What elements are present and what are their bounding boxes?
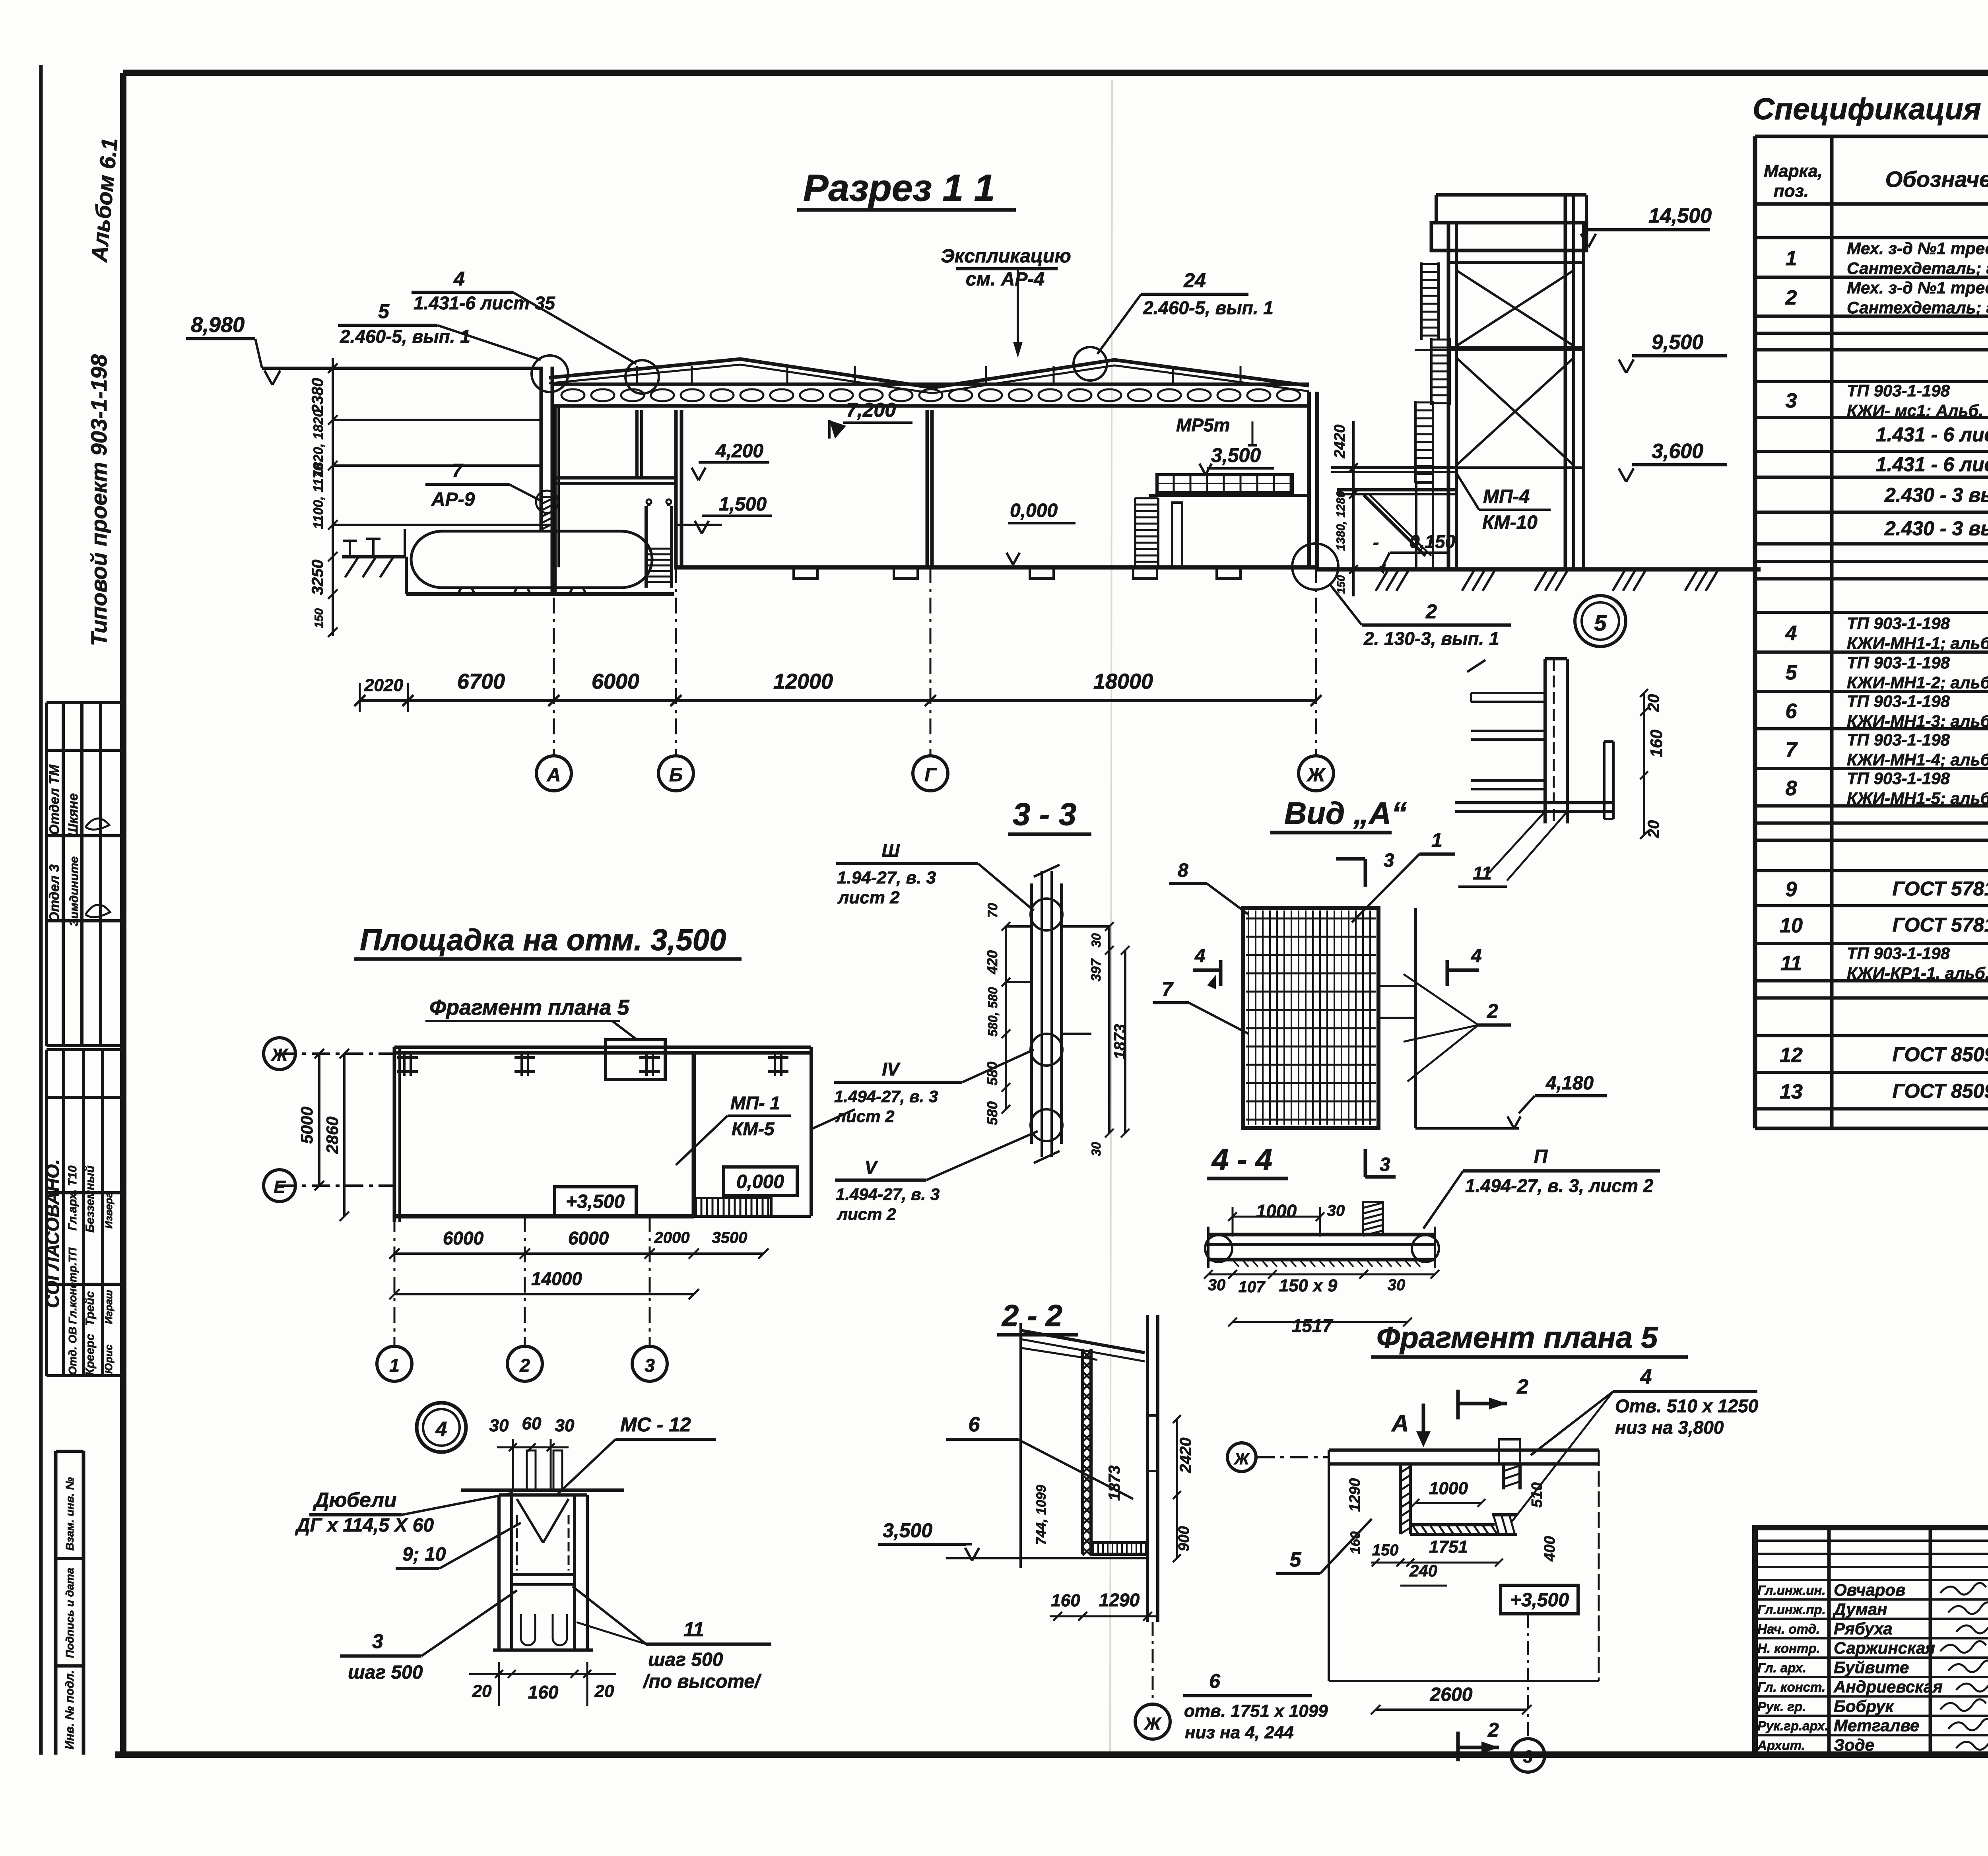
svg-text:2.430 - 3 вып. 3: 2.430 - 3 вып. 3	[1884, 517, 1988, 540]
svg-text:1: 1	[1786, 247, 1797, 270]
svg-text:30: 30	[1089, 1142, 1103, 1156]
svg-text:СОГЛАСОВАНО.: СОГЛАСОВАНО.	[42, 1159, 63, 1308]
svg-text:КЖИ-МН1-1; альб. 6.4: КЖИ-МН1-1; альб. 6.4	[1847, 634, 1988, 652]
svg-text:7,200: 7,200	[846, 399, 896, 421]
svg-text:Бобрук: Бобрук	[1834, 1697, 1894, 1715]
svg-text:Архит.: Архит.	[1757, 1738, 1805, 1753]
svg-text:6: 6	[969, 1413, 980, 1436]
svg-text:160: 160	[1647, 730, 1666, 757]
svg-text:ТП 903-1-198: ТП 903-1-198	[1847, 944, 1950, 963]
svg-text:3250: 3250	[309, 560, 326, 595]
svg-text:Ж: Ж	[1144, 1714, 1162, 1734]
svg-text:150 х 9: 150 х 9	[1279, 1276, 1338, 1295]
svg-text:Вид „А“: Вид „А“	[1284, 796, 1407, 831]
svg-text:12: 12	[1780, 1044, 1803, 1067]
svg-text:ГОСТ 8509-72: ГОСТ 8509-72	[1892, 1080, 1988, 1102]
svg-text:Ш: Ш	[881, 840, 900, 861]
svg-text:/по высоте/: /по высоте/	[643, 1671, 762, 1692]
svg-text:3: 3	[372, 1630, 383, 1652]
svg-text:580: 580	[984, 1101, 1000, 1125]
svg-text:3: 3	[1523, 1747, 1533, 1767]
svg-text:Взам. инв. №: Взам. инв. №	[64, 1477, 76, 1551]
svg-text:поз.: поз.	[1774, 181, 1809, 201]
svg-text:5: 5	[1594, 610, 1607, 635]
svg-text:150: 150	[1372, 1541, 1399, 1559]
svg-text:ГОСТ 5781-81: ГОСТ 5781-81	[1892, 878, 1988, 900]
svg-text:400: 400	[1541, 1536, 1558, 1561]
svg-text:2020: 2020	[364, 676, 403, 695]
svg-text:Фрагмент плана 5: Фрагмент плана 5	[1376, 1321, 1658, 1355]
svg-text:КЖИ-КР1-1, альб. 6.4: КЖИ-КР1-1, альб. 6.4	[1847, 964, 1988, 982]
svg-text:Обозначение: Обозначение	[1885, 167, 1988, 192]
svg-text:Ж: Ж	[271, 1045, 289, 1065]
svg-text:1751: 1751	[1429, 1537, 1468, 1557]
svg-text:30: 30	[1327, 1202, 1345, 1219]
svg-text:150: 150	[313, 608, 326, 628]
svg-text:Зоде: Зоде	[1834, 1736, 1874, 1754]
svg-text:30: 30	[489, 1416, 509, 1435]
svg-text:30: 30	[1208, 1276, 1226, 1294]
svg-text:МС - 12: МС - 12	[620, 1413, 691, 1436]
svg-text:Метгалве: Метгалве	[1834, 1716, 1919, 1735]
svg-text:12000: 12000	[773, 670, 833, 693]
svg-text:Нач. отд.: Нач. отд.	[1757, 1621, 1820, 1636]
svg-text:Думан: Думан	[1833, 1600, 1887, 1619]
svg-text:2420: 2420	[1177, 1438, 1194, 1474]
svg-text:3: 3	[1384, 850, 1394, 871]
svg-text:160: 160	[1051, 1591, 1080, 1610]
svg-text:2860: 2860	[323, 1116, 342, 1154]
svg-text:Экспликацию: Экспликацию	[941, 246, 1071, 267]
svg-text:1.494-27, в. 3, лист 2: 1.494-27, в. 3, лист 2	[1465, 1175, 1654, 1196]
svg-text:5: 5	[1786, 661, 1798, 684]
svg-text:Креерс: Креерс	[83, 1334, 97, 1376]
svg-text:А: А	[1391, 1410, 1409, 1437]
svg-text:Отдел 3: Отдел 3	[47, 864, 62, 922]
svg-text:Гл.арх. Т10: Гл.арх. Т10	[66, 1165, 79, 1231]
svg-text:ТП 903-1-198: ТП 903-1-198	[1847, 692, 1950, 711]
svg-text:Дюбели: Дюбели	[313, 1489, 397, 1512]
svg-text:Гл. конст.: Гл. конст.	[1757, 1680, 1825, 1695]
svg-text:Г: Г	[924, 765, 937, 786]
svg-text:Е: Е	[274, 1177, 286, 1197]
svg-text:шаг 500: шаг 500	[348, 1662, 423, 1683]
svg-text:Юрис: Юрис	[103, 1344, 115, 1374]
svg-text:КЖИ-МН1-2; альб. 6.4: КЖИ-МН1-2; альб. 6.4	[1847, 673, 1988, 692]
svg-text:2: 2	[1516, 1375, 1528, 1398]
svg-text:Площадка на отм. 3,500: Площадка на отм. 3,500	[360, 923, 726, 957]
svg-text:6: 6	[1786, 700, 1798, 723]
svg-text:Ж: Ж	[1306, 765, 1326, 786]
svg-text:8: 8	[1178, 860, 1188, 881]
svg-text:20: 20	[472, 1681, 492, 1701]
svg-text:11: 11	[1780, 952, 1802, 975]
svg-text:ТП 903-1-198: ТП 903-1-198	[1847, 769, 1950, 788]
svg-text:Гл.инж.пр.: Гл.инж.пр.	[1757, 1602, 1826, 1617]
svg-text:Саржинская: Саржинская	[1834, 1639, 1935, 1657]
svg-text:7: 7	[452, 460, 464, 481]
svg-text:Шкяне: Шкяне	[66, 793, 81, 837]
svg-text:7: 7	[1162, 978, 1174, 1000]
svg-text:Рябуха: Рябуха	[1834, 1619, 1893, 1638]
svg-text:1873: 1873	[1106, 1466, 1123, 1501]
svg-text:1000: 1000	[1256, 1201, 1297, 1221]
svg-text:низ на 4, 244: низ на 4, 244	[1185, 1723, 1294, 1742]
svg-text:МП-4: МП-4	[1483, 486, 1530, 507]
svg-text:2420: 2420	[1332, 425, 1348, 459]
svg-text:2: 2	[1487, 1719, 1499, 1741]
svg-text:10: 10	[1780, 914, 1803, 937]
svg-text:160: 160	[528, 1682, 559, 1703]
svg-text:1: 1	[389, 1355, 400, 1376]
svg-text:Буйвите: Буйвите	[1834, 1658, 1909, 1677]
svg-text:Сантехдеталь; г.Горький: Сантехдеталь; г.Горький	[1847, 259, 1988, 278]
svg-text:1290: 1290	[1099, 1590, 1140, 1610]
svg-text:20: 20	[1645, 694, 1662, 713]
svg-text:ГОСТ 5781-81: ГОСТ 5781-81	[1892, 914, 1988, 936]
svg-text:1.431-6 лист 35: 1.431-6 лист 35	[414, 293, 555, 313]
svg-text:КЖИ-МН1-5; альб. 6.4: КЖИ-МН1-5; альб. 6.4	[1847, 789, 1988, 808]
svg-text:Трейс: Трейс	[83, 1291, 97, 1326]
svg-text:6000: 6000	[592, 670, 639, 693]
svg-text:20: 20	[1645, 820, 1662, 839]
svg-text:580, 580: 580, 580	[986, 987, 1000, 1037]
svg-text:0,000: 0,000	[736, 1171, 784, 1192]
svg-text:1,500: 1,500	[719, 494, 767, 515]
svg-text:Подпись и дата: Подпись и дата	[64, 1568, 76, 1658]
svg-text:1380, 1280: 1380, 1280	[1334, 491, 1347, 551]
svg-text:4: 4	[1640, 1365, 1652, 1388]
svg-text:3500: 3500	[712, 1229, 747, 1246]
svg-text:3,500: 3,500	[1211, 444, 1261, 466]
svg-text:14000: 14000	[531, 1268, 582, 1289]
svg-text:+3,500: +3,500	[1510, 1590, 1569, 1611]
svg-text:9; 10: 9; 10	[402, 1544, 446, 1565]
svg-text:Гл.инж.ин.: Гл.инж.ин.	[1757, 1583, 1826, 1598]
svg-text:9,500: 9,500	[1652, 331, 1703, 354]
svg-text:Гл. арх.: Гл. арх.	[1757, 1660, 1806, 1675]
svg-text:1290: 1290	[1347, 1478, 1363, 1512]
svg-text:Разрез 1 1: Разрез 1 1	[803, 167, 995, 209]
svg-text:Н. контр.: Н. контр.	[1757, 1641, 1820, 1656]
svg-text:Играш: Играш	[103, 1290, 115, 1324]
svg-text:2600: 2600	[1430, 1684, 1473, 1705]
svg-text:КМ-10: КМ-10	[1482, 512, 1538, 533]
svg-text:397: 397	[1089, 958, 1104, 982]
svg-text:420: 420	[984, 950, 1000, 975]
svg-text:лист 2: лист 2	[837, 888, 900, 907]
svg-text:6: 6	[1209, 1670, 1221, 1692]
svg-text:Рук. гр.: Рук. гр.	[1757, 1699, 1806, 1714]
svg-text:2: 2	[519, 1355, 530, 1376]
svg-text:2.430 - 3 вып. 3: 2.430 - 3 вып. 3	[1884, 484, 1988, 506]
svg-text:4: 4	[1471, 945, 1482, 967]
svg-text:V: V	[865, 1157, 878, 1178]
svg-text:744, 1099: 744, 1099	[1034, 1485, 1049, 1545]
svg-text:240: 240	[1409, 1561, 1437, 1580]
svg-text:ТП 903-1-198: ТП 903-1-198	[1847, 614, 1950, 633]
svg-text:5: 5	[378, 300, 390, 322]
svg-text:1000: 1000	[1429, 1479, 1468, 1498]
svg-text:510: 510	[1529, 1482, 1545, 1507]
svg-text:МП- 1: МП- 1	[730, 1093, 780, 1113]
svg-text:1: 1	[1431, 829, 1442, 851]
svg-text:2.460-5, вып. 1: 2.460-5, вып. 1	[1143, 297, 1274, 318]
svg-text:А: А	[547, 765, 561, 786]
svg-text:4: 4	[1785, 622, 1797, 645]
svg-text:КМ-5: КМ-5	[732, 1118, 775, 1139]
svg-text:4,180: 4,180	[1545, 1073, 1594, 1094]
svg-text:-: -	[1373, 532, 1379, 553]
svg-text:Отдел ТМ: Отдел ТМ	[47, 765, 62, 835]
svg-text:Гл.констр.ТП: Гл.констр.ТП	[66, 1247, 79, 1324]
svg-text:Б: Б	[669, 765, 683, 786]
svg-text:отв. 1751 х 1099: отв. 1751 х 1099	[1184, 1701, 1328, 1721]
svg-text:КЖИ-МН1-4; альб. 6.4: КЖИ-МН1-4; альб. 6.4	[1847, 750, 1988, 769]
svg-text:11: 11	[1473, 863, 1492, 883]
svg-text:30: 30	[1388, 1276, 1406, 1294]
svg-text:1.94-27, в. 3: 1.94-27, в. 3	[837, 868, 936, 887]
svg-text:Спецификация: Спецификация	[1753, 92, 1981, 126]
svg-text:1100, 1170: 1100, 1170	[311, 463, 326, 529]
svg-text:24: 24	[1183, 269, 1206, 291]
svg-text:Типовой проект 903-1-198: Типовой проект 903-1-198	[86, 354, 111, 646]
svg-text:8: 8	[1786, 777, 1797, 800]
svg-text:Сантехдеталь; г.Горький: Сантехдеталь; г.Горький	[1847, 298, 1988, 317]
svg-text:0,000: 0,000	[1010, 500, 1058, 521]
svg-text:ГОСТ 8509-72: ГОСТ 8509-72	[1892, 1043, 1988, 1066]
svg-text:1.431 - 6 лист 54: 1.431 - 6 лист 54	[1876, 423, 1988, 446]
svg-text:шаг 500: шаг 500	[648, 1649, 723, 1670]
svg-text:3 - 3: 3 - 3	[1013, 796, 1076, 832]
svg-text:П: П	[1534, 1146, 1548, 1167]
svg-text:6000: 6000	[443, 1228, 484, 1248]
svg-text:1.494-27, в. 3: 1.494-27, в. 3	[836, 1185, 940, 1204]
svg-text:Инв. № подл.: Инв. № подл.	[63, 1670, 76, 1749]
svg-text:30: 30	[555, 1416, 575, 1435]
svg-text:Отд. ОВ: Отд. ОВ	[66, 1327, 79, 1375]
svg-text:3: 3	[1786, 389, 1797, 412]
svg-text:2 - 2: 2 - 2	[1001, 1299, 1062, 1333]
svg-text:20: 20	[594, 1681, 614, 1701]
svg-text:2. 130-3, вып. 1: 2. 130-3, вып. 1	[1363, 628, 1499, 649]
svg-text:ДГ х 114,5 Х 60: ДГ х 114,5 Х 60	[295, 1515, 434, 1536]
svg-text:Марка,: Марка,	[1764, 161, 1823, 181]
svg-text:2380: 2380	[309, 378, 326, 414]
svg-text:8,980: 8,980	[191, 313, 245, 337]
svg-text:Отв. 510 х 1250: Отв. 510 х 1250	[1615, 1396, 1759, 1416]
svg-text:5: 5	[1290, 1548, 1302, 1571]
svg-text:2000: 2000	[654, 1229, 690, 1246]
svg-text:лист 2: лист 2	[837, 1205, 896, 1223]
svg-text:107: 107	[1239, 1278, 1266, 1296]
svg-text:ТП 903-1-198: ТП 903-1-198	[1847, 653, 1950, 672]
svg-text:2: 2	[1785, 286, 1797, 309]
svg-text:IV: IV	[882, 1059, 901, 1079]
svg-text:3: 3	[1380, 1154, 1390, 1175]
svg-text:Зимдините: Зимдините	[68, 856, 81, 926]
svg-text:30: 30	[1089, 933, 1103, 947]
svg-text:900: 900	[1176, 1526, 1192, 1551]
svg-text:3,600: 3,600	[1652, 440, 1703, 463]
svg-text:9: 9	[1786, 878, 1797, 901]
svg-text:2: 2	[1487, 1000, 1498, 1022]
svg-text:Мех. з-д №1 треста: Мех. з-д №1 треста	[1847, 278, 1988, 297]
svg-text:ТП 903-1-198: ТП 903-1-198	[1847, 730, 1950, 749]
svg-text:3,500: 3,500	[883, 1519, 932, 1541]
svg-text:АР-9: АР-9	[431, 489, 475, 510]
svg-text:4: 4	[1194, 945, 1206, 967]
svg-text:ТП 903-1-198: ТП 903-1-198	[1847, 381, 1950, 400]
svg-text:лист 2: лист 2	[835, 1107, 895, 1126]
svg-text:5000: 5000	[297, 1107, 316, 1143]
svg-text:1517: 1517	[1292, 1315, 1334, 1336]
svg-text:4: 4	[435, 1418, 447, 1441]
svg-text:3: 3	[645, 1355, 655, 1376]
svg-text:Мех. з-д №1 треста,: Мех. з-д №1 треста,	[1847, 239, 1988, 258]
svg-text:6000: 6000	[568, 1228, 609, 1248]
svg-text:4: 4	[453, 268, 465, 290]
svg-text:1.494-27, в. 3: 1.494-27, в. 3	[834, 1087, 938, 1106]
svg-text:70: 70	[985, 903, 1000, 918]
svg-text:4 - 4: 4 - 4	[1211, 1143, 1272, 1177]
svg-text:КЖИ-МН1-3; альб. 6.4: КЖИ-МН1-3; альб. 6.4	[1847, 712, 1988, 730]
svg-text:Изверг: Изверг	[103, 1192, 115, 1229]
svg-text:14,500: 14,500	[1648, 204, 1712, 227]
svg-text:Фрагмент плана 5: Фрагмент плана 5	[429, 996, 630, 1019]
svg-text:МР5т: МР5т	[1176, 415, 1230, 435]
svg-text:низ на 3,800: низ на 3,800	[1615, 1417, 1724, 1438]
svg-text:+3,500: +3,500	[566, 1191, 625, 1212]
svg-text:7: 7	[1786, 738, 1798, 761]
svg-text:КЖИ- мс1; Альб. 6.4: КЖИ- мс1; Альб. 6.4	[1847, 401, 1988, 420]
svg-text:60: 60	[522, 1414, 542, 1433]
svg-text:Андриевская: Андриевская	[1833, 1677, 1943, 1696]
svg-text:Овчаров: Овчаров	[1834, 1580, 1905, 1599]
svg-text:13: 13	[1780, 1080, 1803, 1103]
svg-text:18000: 18000	[1093, 670, 1153, 693]
svg-text:11: 11	[683, 1618, 704, 1641]
svg-text:Безземный: Безземный	[83, 1165, 97, 1233]
svg-text:4,200: 4,200	[715, 441, 763, 462]
svg-text:1.431 - 6 лист 54: 1.431 - 6 лист 54	[1876, 453, 1988, 476]
svg-text:см. АР-4: см. АР-4	[966, 269, 1044, 290]
svg-text:2: 2	[1425, 600, 1437, 623]
svg-text:Рук.гр.арх.: Рук.гр.арх.	[1757, 1718, 1828, 1733]
svg-text:Ж: Ж	[1233, 1450, 1250, 1468]
svg-text:6700: 6700	[457, 670, 505, 693]
